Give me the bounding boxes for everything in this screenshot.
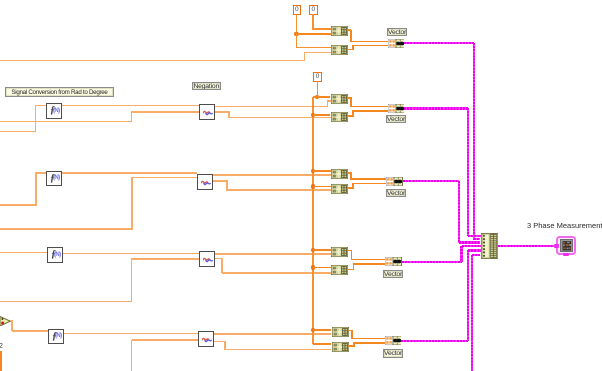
polar-to-complex blockB group1 [331, 45, 348, 55]
cluster wire group3 to big bundle [403, 180, 460, 182]
junction const1 [294, 32, 298, 36]
wire row3 riser to negation3 mid [0, 301, 132, 303]
wire blockA5 to bundle [348, 330, 352, 332]
wire from offscreen bottom [131, 340, 133, 371]
bundle node group5 [385, 336, 402, 345]
formula node fN row4 [48, 329, 64, 345]
junction bus group2 blockB [311, 113, 315, 117]
wire const1 branch to blockB1 [296, 33, 298, 48]
wire blockA1 to bundle [347, 29, 351, 31]
wire row2 input L [0, 204, 36, 206]
cluster wire group4 to big bundle [402, 261, 462, 263]
polar-to-complex blockA group3 [331, 169, 348, 179]
label Vector group5 [383, 349, 403, 358]
subVI 3 Phase Measurement System [556, 236, 576, 256]
label Signal Conversion from Rad to Degree [5, 87, 114, 98]
wire negation2 top out to group3 blockA [213, 174, 331, 176]
wire bus to blockA4 [313, 249, 331, 251]
polar-to-complex blockA group1 [331, 26, 348, 36]
polar-to-complex blockB group2 [331, 112, 348, 122]
wire row2 pass to negation2 mid [0, 228, 132, 230]
wire negation2 out stepped [213, 180, 227, 182]
bundle node group1 [388, 39, 405, 48]
wire bus to blockB3 [313, 186, 331, 188]
polar-to-complex blockB group5 [332, 342, 349, 352]
wire bus to blockB2 [313, 114, 330, 116]
wire bus to blockB5 [313, 343, 331, 345]
negation node row2 [197, 174, 213, 190]
polar-to-complex blockB group4 [331, 265, 348, 275]
wire fN4 out to negation4 [64, 333, 199, 335]
text fragment 2 (clipped label) [0, 343, 3, 350]
wire const3 to blockA2 [317, 96, 330, 98]
junction bus group4 blockA [311, 248, 315, 252]
polar-to-complex blockA group2 [331, 94, 348, 104]
label Vector group2 [386, 115, 406, 124]
polar-to-complex blockA group5 [332, 327, 349, 337]
numeric constant 0 (group1 b) [309, 5, 318, 16]
label Vector group4 [383, 270, 403, 279]
bundle node group4 [385, 257, 402, 266]
wire negation4 top out to group5 blockA [214, 333, 331, 335]
wire const2 to blockA1 [312, 14, 314, 29]
wire bus to blockB4 [313, 267, 331, 269]
cluster wire group1 to big bundle [404, 42, 474, 44]
wire negation4 out stepped [214, 341, 225, 343]
wire bus to blockA3 [313, 170, 331, 172]
wire riser to negation4 mid [132, 339, 199, 341]
wire blockB1 to bundle [347, 49, 353, 51]
wire fN2 out to negation2 [62, 172, 198, 174]
bundle node group2 [388, 104, 405, 113]
junction bus group3 blockB [311, 184, 315, 188]
wire fN3 out to negation3 [63, 253, 199, 255]
wire bus to blockA5 [313, 329, 331, 331]
subVI run dot [563, 253, 570, 256]
polar-to-complex blockA group4 [331, 247, 348, 257]
wire const3 down [317, 81, 319, 97]
wire jog to main vertical [313, 96, 317, 98]
wire main zero bus vertical [312, 97, 314, 344]
negation node row1 [199, 104, 215, 120]
subVI input nub [554, 244, 559, 248]
wire const1 down [296, 14, 298, 34]
wire blockA2 to bundle [347, 97, 351, 99]
wire row1 input L [0, 131, 36, 133]
wire row3 input [0, 252, 47, 254]
formula node fN row1 [46, 103, 62, 119]
junction bus group4 blockB [311, 265, 315, 269]
negation node row3 [199, 251, 215, 267]
polar-to-complex blockB group3 [331, 184, 348, 194]
wire negation3 out stepped [215, 258, 222, 260]
cluster wire group2 to big bundle [404, 107, 468, 109]
label Negation [192, 82, 221, 90]
label 3 Phase Measurement System [527, 221, 602, 230]
wire clipped at bottom-left [0, 351, 2, 371]
cluster wire group5 to big bundle [401, 340, 468, 342]
wire negation3 top out to group4 blockA [215, 253, 331, 255]
wire multiply out to fN4 [10, 320, 12, 322]
wire blockB4 to bundle [348, 269, 354, 271]
wire blockB2 to bundle [347, 115, 353, 117]
numeric constant 0 (group1 a) [293, 5, 302, 16]
formula node fN row2 [46, 171, 62, 187]
label Vector group1 [387, 28, 407, 37]
multiply node (clipped at left edge) [0, 316, 11, 327]
wire blockA4 to bundle [348, 250, 352, 252]
formula node fN row3 [47, 247, 63, 263]
label Vector group3 [386, 189, 406, 198]
negation node row4 [198, 331, 214, 347]
cluster wire from offscreen bottom to big bundle [471, 255, 473, 371]
wire fN1 out to negation1 [62, 105, 200, 107]
wire row1 pass to negation1 mid [0, 121, 132, 123]
cluster wire big bundle to subVI [498, 245, 557, 247]
wire negation1 top out to group2 blockA [215, 106, 328, 108]
junction const3 [315, 95, 319, 99]
junction bus group3 blockA [311, 169, 315, 173]
wire blockA3 to bundle [347, 172, 351, 174]
wire negation1 out stepped [215, 111, 229, 113]
numeric constant 0 (group2) [313, 72, 322, 83]
wire signal-a magnitude to group1 [0, 60, 305, 62]
wire blockB3 to bundle [347, 187, 353, 189]
bundle node 7-element (3 phase cluster) [481, 233, 498, 259]
junction bus group5 blockA [311, 328, 315, 332]
wire blockB5 to bundle [348, 345, 354, 347]
wire const1 to blockA1 [297, 33, 331, 35]
bundle node group3 [386, 177, 403, 186]
